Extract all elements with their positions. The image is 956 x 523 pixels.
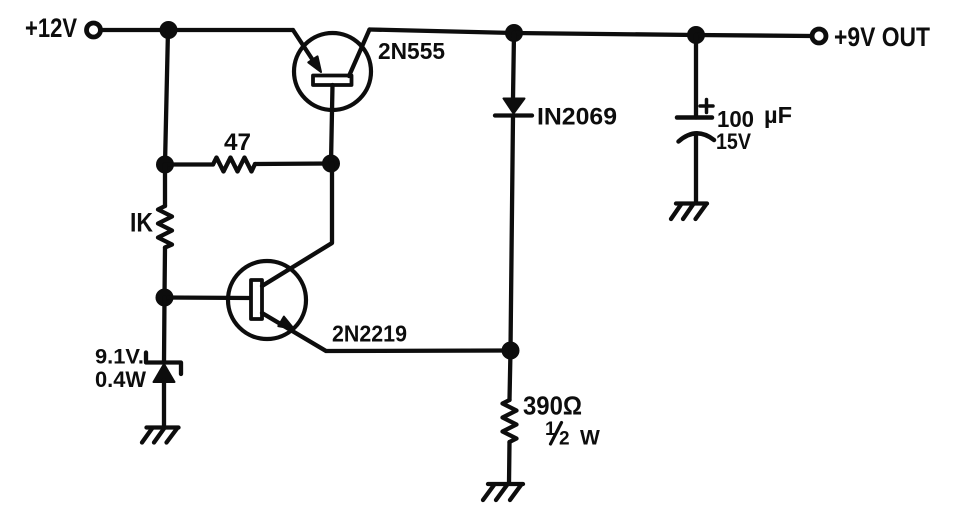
wire capacitor C1 to ground <box>694 136 698 203</box>
wire resistor 1K to node A3 <box>162 248 167 298</box>
svg-text:390Ω: 390Ω <box>523 391 582 421</box>
wire resistor 47 to node B2 <box>255 161 331 166</box>
zener D2 anode triangle <box>154 364 175 382</box>
svg-text:W: W <box>580 427 600 450</box>
transistor Q2 base bar <box>251 280 262 319</box>
svg-text:2: 2 <box>559 429 570 450</box>
svg-text:15V: 15V <box>716 129 751 154</box>
svg-text:9.1V.: 9.1V. <box>95 346 144 369</box>
wire node C to output terminal <box>696 35 812 36</box>
node C (junction dot, rail over capacitor) <box>687 26 705 44</box>
transistor Q1 2N555 circle <box>294 33 371 110</box>
wire resistor 390 to ground <box>507 442 512 484</box>
svg-text:IK: IK <box>130 208 153 238</box>
wire node A3 to Q2 base <box>165 295 252 300</box>
wire node A2 down to resistor 1K <box>163 165 167 207</box>
label 1/2 W <box>545 419 600 450</box>
resistor R3 390 ohm <box>503 400 517 442</box>
transistor Q2 2N2219 circle <box>228 261 306 339</box>
resistor 47 <box>213 158 255 172</box>
capacitor C1 plus sign <box>700 100 713 113</box>
wire Q1 base down to node B2 <box>331 85 333 164</box>
svg-text:2N2219: 2N2219 <box>332 321 407 347</box>
wire node B to node C <box>514 33 696 35</box>
resistor 1K <box>158 206 172 248</box>
ground under zener <box>142 428 179 443</box>
terminal +9V output <box>812 29 826 43</box>
node B (junction dot, rail over diode) <box>505 24 523 42</box>
node B2 (junction dot, right of 47 ohm) <box>322 155 340 173</box>
node A3 (junction dot, Q2 base node) <box>156 289 174 307</box>
svg-text:IN2069: IN2069 <box>537 104 617 131</box>
wire node D down to resistor 390 <box>510 351 511 401</box>
wire node A to Q1 emitter bend <box>169 28 294 32</box>
wire node B down to diode D1 <box>513 33 514 99</box>
wire zener D2 to ground <box>162 380 166 427</box>
wire diode D1 to node D <box>511 116 514 351</box>
svg-text:0.4W: 0.4W <box>95 367 146 392</box>
svg-text:2N555: 2N555 <box>378 38 445 64</box>
capacitor C1 top plate <box>677 115 712 120</box>
transistor Q1 base bar <box>313 76 352 86</box>
node A (junction dot, +12V rail) <box>160 21 178 39</box>
wire node C down to capacitor C1 <box>694 35 698 118</box>
wire input terminal to node A <box>101 28 169 32</box>
diode D1 cathode bar <box>495 113 532 117</box>
transistor Q2 emitter arrowhead <box>278 317 294 329</box>
node D (junction dot, emitter/diode/390) <box>502 342 520 360</box>
svg-text:47: 47 <box>224 129 251 156</box>
capacitor C1 bottom plate (curved) <box>679 133 715 141</box>
wire node A down to node A2 <box>165 30 168 165</box>
transistor Q1 emitter arrowhead <box>308 56 321 72</box>
terminal +12V input <box>87 23 101 37</box>
svg-text:+9V OUT: +9V OUT <box>834 22 930 52</box>
transistor Q1 2N555 emitter lead <box>293 30 318 68</box>
transistor Q1 collector lead <box>349 30 370 77</box>
node A2 (junction dot, left of 47 ohm) <box>156 156 174 174</box>
zener D2 cathode bar with ticks <box>146 353 181 375</box>
wire Q1 collector to node B <box>370 30 515 34</box>
transistor Q2 emitter lead <box>262 313 511 351</box>
ground under resistor 390 <box>483 484 523 500</box>
wire node A3 down to zener D2 <box>162 298 167 363</box>
ground under capacitor <box>671 204 707 220</box>
svg-text:+12V: +12V <box>25 13 77 43</box>
svg-text:µF: µF <box>764 102 792 128</box>
wire node A2 to resistor 47 <box>165 162 213 166</box>
transistor Q2 collector lead <box>262 164 332 287</box>
diode D1 1N2069 anode triangle <box>504 99 525 114</box>
